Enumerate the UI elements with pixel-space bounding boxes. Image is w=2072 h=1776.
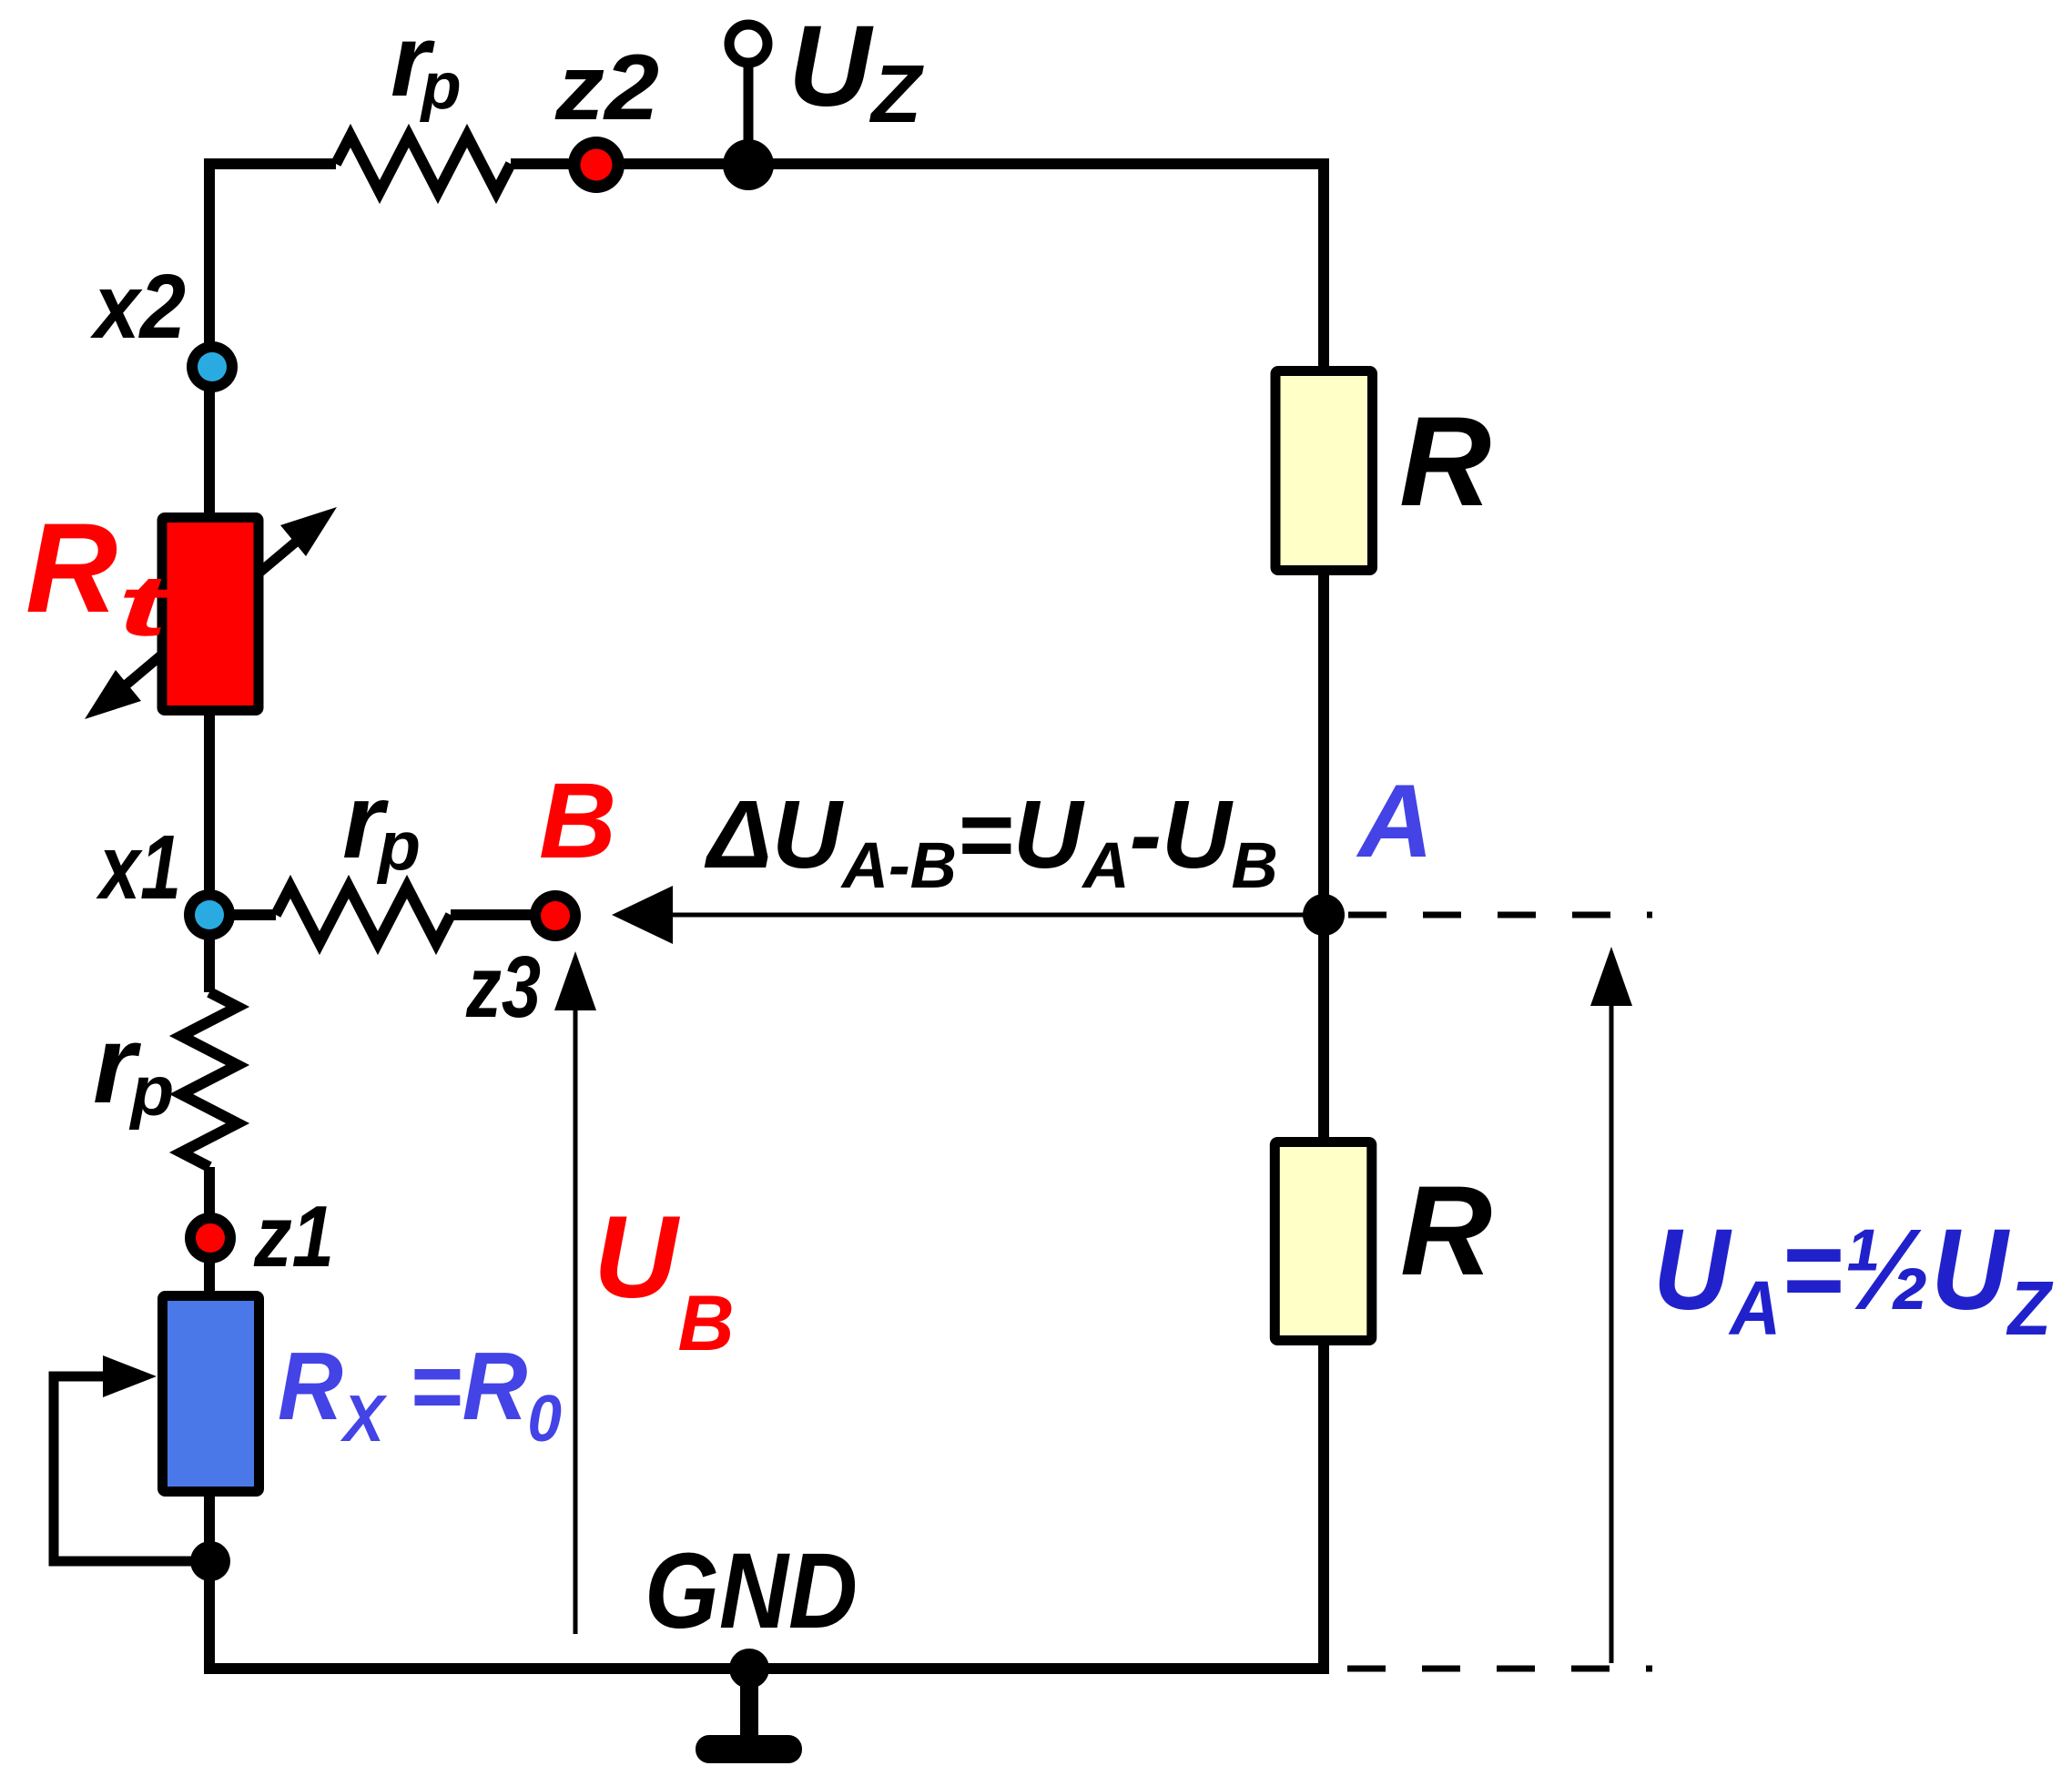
- wire middle resistor to node B: [451, 909, 555, 920]
- node x1: [184, 889, 235, 940]
- wire bottom horizontal with left and right risers: [209, 1340, 1324, 1669]
- resistor rp left zigzag: [181, 992, 238, 1167]
- thermistor Rt body: [162, 518, 259, 711]
- dashed line bottom: [1347, 1666, 1652, 1672]
- svg-text:x2: x2: [89, 256, 186, 358]
- resistor R lower body: [1275, 1142, 1372, 1341]
- node A junction: [1303, 894, 1345, 936]
- node z1: [185, 1213, 236, 1263]
- wire top horizontal with left and right corners: [209, 164, 1324, 524]
- svg-text:ΔUA-B=UA-UB: ΔUA-B=UA-UB: [704, 781, 1278, 902]
- resistor R upper body: [1275, 371, 1373, 571]
- wire UZ terminal stub: [744, 63, 754, 165]
- svg-text:RX =R0: RX =R0: [278, 1333, 562, 1456]
- svg-text:B: B: [539, 761, 616, 881]
- wire right vertical through node A: [1318, 572, 1329, 1142]
- svg-text:z3: z3: [465, 939, 541, 1036]
- junction wiper to bottom: [190, 1541, 230, 1581]
- resistor rp middle zigzag: [276, 887, 451, 943]
- svg-text:GND: GND: [645, 1531, 858, 1651]
- arrow A to B: [648, 913, 1324, 918]
- junction GND: [729, 1649, 769, 1689]
- wire x1 to middle resistor: [209, 909, 276, 920]
- ground symbol: [740, 1669, 758, 1735]
- node x2: [187, 341, 238, 392]
- resistor rp top zigzag: [336, 136, 511, 192]
- svg-text:A: A: [1356, 764, 1433, 879]
- potentiometer RX wiper arrow: [54, 1376, 210, 1561]
- svg-text:R: R: [1400, 1159, 1492, 1302]
- svg-text:R: R: [1399, 390, 1491, 533]
- node B: [530, 890, 581, 941]
- terminal UZ open circle: [729, 25, 767, 63]
- thermistor Rt variable arrow: [85, 507, 337, 719]
- svg-text:UA=½UZ: UA=½UZ: [1653, 1205, 2053, 1351]
- arrow UB: [574, 1006, 578, 1634]
- wire left vertical Rt to x1: [204, 710, 215, 992]
- dashed line from A: [1348, 912, 1652, 918]
- arrow UA: [1610, 1001, 1614, 1663]
- node z2: [568, 137, 625, 193]
- junction UZ on top wire: [723, 139, 774, 190]
- svg-text:x1: x1: [96, 817, 181, 918]
- svg-text:z1: z1: [253, 1188, 334, 1285]
- wire zigzag to z1 to RX: [204, 1167, 215, 1296]
- svg-text:z2: z2: [554, 36, 659, 139]
- potentiometer RX body: [163, 1296, 259, 1492]
